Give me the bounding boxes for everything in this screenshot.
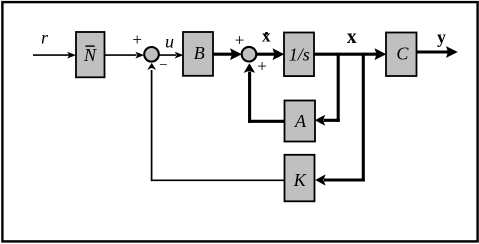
svg-text:y: y [437,27,446,47]
wire 1/s to C main line (thick) [314,48,386,60]
wire tap to K (vertical thick) [362,53,365,182]
wire r input arrow [33,52,76,59]
svg-text:−: − [159,58,167,74]
summing junction S1 [144,47,159,62]
block 1/s [284,33,314,77]
svg-text:+: + [257,57,267,76]
block K [285,155,315,202]
svg-text:N: N [83,45,97,65]
summing junction S2 [242,47,257,62]
svg-text:K: K [293,170,307,190]
wire C output y (thick) [417,46,458,58]
wire into K (thick) [315,174,365,185]
svg-text:B: B [194,43,205,63]
block C [386,33,417,77]
block B [183,32,213,76]
wire sum1 to B [160,52,184,59]
wire into A (thick) [315,115,340,126]
wire A to sum2 (thick, left and up) [244,63,285,123]
wire tap to A (vertical thick) [337,53,340,122]
node xdot label [262,27,271,46]
svg-text:+: + [132,30,142,49]
svg-text:r: r [41,28,49,48]
svg-text:+: + [235,31,245,50]
svg-text:A: A [294,111,307,131]
wire B to sum2 (thick) [214,48,242,60]
wire sum2 to 1/s (thick) [257,48,284,60]
svg-text:x: x [347,27,357,48]
block N1 (N-bar) [76,32,105,77]
block A [285,101,316,142]
wire N-bar to sum1 [105,52,145,59]
svg-text:1/s: 1/s [289,44,310,64]
svg-text:u: u [165,32,174,52]
svg-text:C: C [396,44,409,64]
wire K to sum1 (thin, left and up) [147,63,284,181]
svg-text:x: x [262,27,271,46]
